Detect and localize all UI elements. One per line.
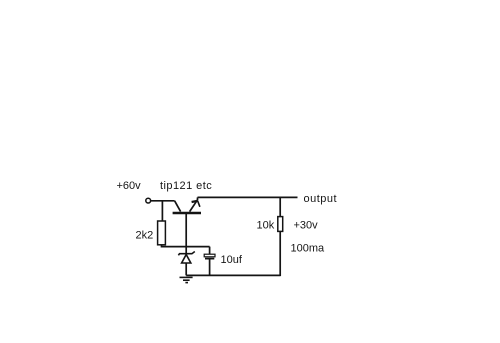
- svg-text:10uf: 10uf: [221, 254, 243, 266]
- emitter stub to output wire: [197, 197, 199, 200]
- emitter arrow barb left: [192, 201, 198, 202]
- svg-text:tip121 etc: tip121 etc: [160, 180, 212, 192]
- bottom lead: [209, 259, 211, 275]
- base bar: [173, 212, 201, 215]
- terminal (input +60v): [146, 198, 151, 203]
- wire (junction down to R1): [161, 201, 163, 221]
- wire (output down to R2): [279, 197, 281, 216]
- resistor R2 10k: [278, 217, 283, 232]
- ground: [180, 277, 193, 282]
- zener diode D1: [178, 252, 194, 264]
- svg-text:100ma: 100ma: [291, 243, 326, 255]
- collector diagonal: [175, 201, 181, 212]
- wire (R2 to bottom rail): [279, 231, 281, 276]
- bottom rail wire: [186, 274, 280, 276]
- top plate (hollow): [204, 254, 215, 257]
- svg-text:output: output: [304, 193, 338, 205]
- svg-text:10k: 10k: [257, 220, 275, 232]
- cathode bar with zener hooks: [178, 252, 194, 256]
- bottom plate: [205, 258, 214, 260]
- output wire: [198, 196, 298, 198]
- svg-text:+30v: +30v: [294, 220, 319, 232]
- wire (terminal to collector): [151, 200, 175, 202]
- emitter diagonal: [190, 200, 198, 212]
- emitter arrow barb right: [198, 201, 200, 207]
- anode triangle: [182, 255, 191, 264]
- top lead: [209, 247, 211, 255]
- wire (zener anode to bottom rail): [185, 263, 187, 275]
- wire (base lead down to zener): [185, 214, 187, 254]
- svg-text:+60v: +60v: [117, 180, 142, 192]
- capacitor C1 10uf: [204, 247, 215, 276]
- wire (R1 bottom to node row): [162, 245, 210, 247]
- transistor Q1 tip121: [173, 197, 201, 213]
- svg-text:2k2: 2k2: [136, 230, 154, 242]
- resistor R1 2k2: [158, 221, 166, 245]
